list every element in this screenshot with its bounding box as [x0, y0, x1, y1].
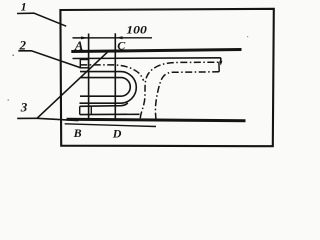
return path right-end vertical: [218, 62, 220, 72]
dimension arrow right-pointing: [81, 36, 88, 39]
frame (plate outline): [60, 9, 273, 146]
hairpin inner (solid D): [80, 78, 130, 97]
paper background: [0, 0, 287, 153]
T1 end down arrow: [220, 58, 222, 62]
leader 3 lower branch: [37, 118, 78, 120]
leader 3 upper branch: [37, 52, 107, 118]
hairpin outer (solid D): [80, 72, 137, 104]
tack square lower (band left end): [79, 106, 81, 114]
weld seam bottom (thick): [67, 119, 246, 121]
svg-text:B: B: [73, 126, 82, 140]
band top solid part: [80, 103, 128, 106]
svg-text:3: 3: [20, 100, 28, 115]
extension line V2: [114, 33, 116, 118]
leader 3 underline: [17, 117, 37, 119]
extension line V1: [88, 34, 90, 119]
dimension arrow left-pointing: [115, 36, 122, 39]
leader 2: [18, 51, 80, 68]
dash-dot return path: back left and descend to seam: [155, 72, 219, 119]
band tick: [90, 106, 92, 115]
svg-text:D: D: [112, 127, 122, 141]
lower plate thin edge line: [65, 124, 156, 127]
leader 1: [17, 13, 66, 26]
trajectory T1 top line: [73, 57, 221, 60]
scan speckles: [13, 55, 14, 56]
tack square upper: [80, 60, 88, 68]
dimension line: [73, 37, 153, 39]
dash-dot return path: rise from seam, run right: [140, 62, 219, 118]
svg-text:1: 1: [21, 0, 27, 13]
band bottom solid part: [80, 113, 140, 115]
svg-text:100: 100: [126, 23, 147, 37]
dash-dot T2 with J-hook to band bottom: [80, 65, 143, 81]
weld seam top (thick): [71, 50, 241, 52]
